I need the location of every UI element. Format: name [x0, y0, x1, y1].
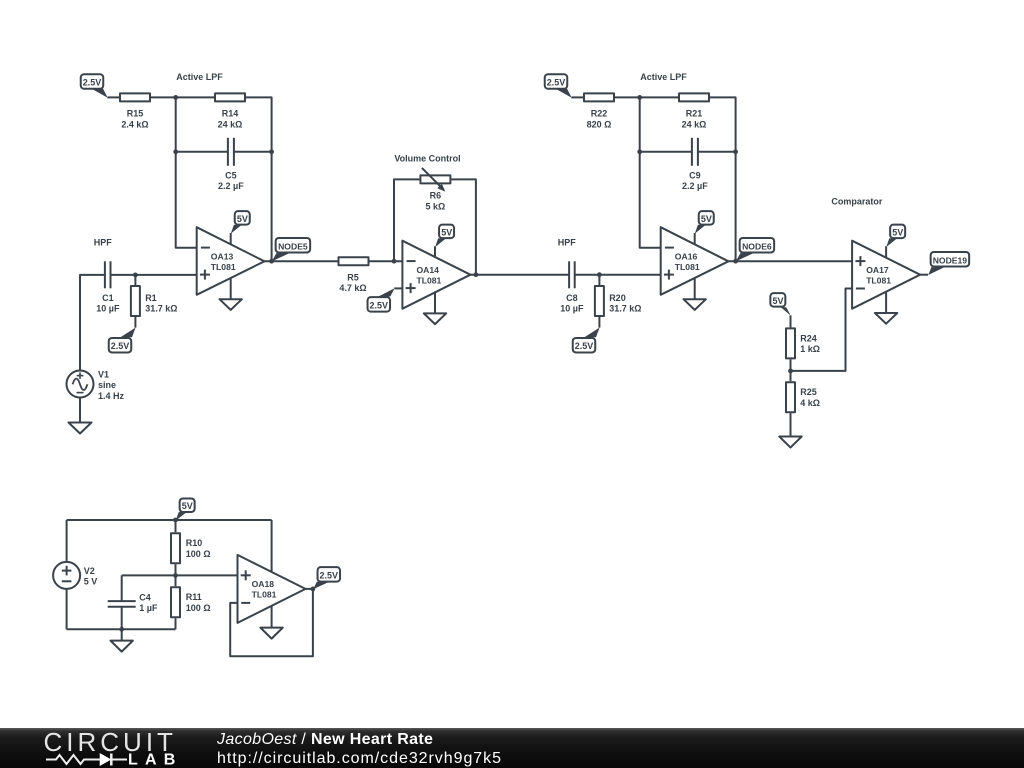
junction dot NODE5	[269, 259, 274, 264]
voltage source V2	[53, 562, 97, 589]
wire C5 left segment	[176, 151, 228, 153]
power flag 5V (OA16)	[695, 211, 714, 233]
svg-text:2.5V: 2.5V	[370, 300, 389, 310]
ground below R25	[779, 437, 801, 448]
ground below C4	[111, 641, 133, 652]
svg-text:Volume Control: Volume Control	[394, 153, 460, 163]
op-amp OA16	[661, 227, 729, 295]
junction dot C5 left	[173, 149, 178, 154]
logo diode	[100, 753, 112, 766]
power flag 2.5V (OA18 output)	[313, 567, 340, 589]
op-amp OA18	[238, 555, 306, 623]
ground below OA16	[684, 299, 706, 310]
wire OA18 to ground	[271, 606, 273, 628]
svg-text:820 Ω: 820 Ω	[587, 119, 612, 129]
wire C1 to OA13 plus input	[111, 274, 197, 276]
svg-text:HPF: HPF	[558, 238, 577, 248]
ground below OA14	[424, 313, 446, 324]
svg-text:OA13: OA13	[211, 251, 234, 261]
svg-text:R1: R1	[145, 293, 157, 303]
svg-text:TL081: TL081	[211, 262, 236, 272]
capacitor C4	[108, 593, 158, 630]
wire OA18 output	[306, 588, 313, 590]
svg-text:C1: C1	[102, 293, 114, 303]
svg-text:4 kΩ: 4 kΩ	[800, 398, 820, 408]
svg-text:2.2 µF: 2.2 µF	[682, 181, 708, 191]
resistor R1	[131, 275, 178, 328]
wire C5 right segment	[234, 151, 272, 153]
svg-text:TL081: TL081	[866, 275, 891, 285]
svg-text:sine: sine	[98, 380, 116, 390]
wire OA16 to ground	[694, 278, 696, 299]
wire OA14 to ground	[434, 292, 436, 314]
op-amp OA17	[852, 241, 920, 309]
wire R22 to R21	[615, 96, 678, 98]
resistor R10	[171, 520, 211, 575]
resistor R11	[171, 575, 211, 629]
wire OA17 to ground	[885, 292, 887, 313]
resistor R5	[339, 257, 369, 293]
power flag 5V (OA17)	[886, 225, 905, 247]
svg-text:5V: 5V	[441, 227, 452, 237]
junction dot R10/R11	[173, 573, 178, 578]
svg-text:R6: R6	[430, 191, 442, 201]
svg-text:TL081: TL081	[252, 590, 277, 600]
svg-text:V1: V1	[98, 369, 109, 379]
svg-text:1.4 Hz: 1.4 Hz	[98, 391, 125, 401]
svg-text:R24: R24	[800, 333, 817, 343]
junction dot R24/R25	[788, 369, 793, 374]
wire left feedback vertical to OA13 minus input	[176, 97, 197, 247]
capacitor C8	[560, 261, 584, 313]
svg-text:4.7 kΩ: 4.7 kΩ	[339, 283, 366, 293]
wire OA17 5V pin	[885, 246, 887, 257]
capacitor C1	[96, 261, 120, 313]
svg-text:HPF: HPF	[94, 238, 113, 248]
svg-text:V2: V2	[84, 566, 95, 576]
junction dot OA18 output	[311, 587, 316, 592]
wire V2 to bottom rail	[66, 589, 68, 629]
svg-text:5V: 5V	[772, 296, 783, 306]
svg-text:31.7 kΩ: 31.7 kΩ	[609, 304, 641, 314]
svg-text:2.4 kΩ: 2.4 kΩ	[121, 119, 148, 129]
net flag NODE6	[736, 238, 774, 261]
svg-text:R14: R14	[222, 109, 239, 119]
wire R24 to R25	[790, 359, 792, 381]
svg-text:R21: R21	[686, 109, 703, 119]
svg-text:NODE6: NODE6	[742, 242, 772, 252]
svg-text:5V: 5V	[701, 214, 712, 224]
voltage source V1 sine	[67, 369, 125, 401]
svg-text:NODE5: NODE5	[278, 242, 308, 252]
wire OA14 output to C8	[470, 274, 569, 276]
wire C8 to OA16 plus input	[575, 274, 661, 276]
svg-text:100 Ω: 100 Ω	[186, 549, 211, 559]
op-amp OA14	[402, 241, 470, 309]
wire R21 to right vertical rail	[710, 97, 736, 261]
svg-text:LAB: LAB	[128, 752, 182, 768]
svg-text:2.5V: 2.5V	[575, 341, 594, 351]
junction dot C9 left	[637, 149, 642, 154]
op-amp OA13	[197, 227, 265, 295]
svg-text:2.2 µF: 2.2 µF	[218, 181, 244, 191]
svg-text:10 µF: 10 µF	[560, 304, 584, 314]
wire left feedback vertical to OA16 minus input	[640, 97, 661, 247]
resistor R20	[595, 275, 642, 328]
wire OA14 5V pin	[434, 246, 436, 257]
wire OA16 5V pin	[694, 233, 696, 244]
wire OA14 plus input stub	[394, 287, 402, 289]
power flag 2.5V (below R20)	[573, 328, 600, 353]
power flag 2.5V (feeds R22)	[545, 74, 572, 97]
junction dot 5V rail	[173, 518, 178, 523]
svg-text:NODE19: NODE19	[933, 256, 968, 266]
ground below OA13	[220, 299, 242, 310]
svg-text:Active LPF: Active LPF	[176, 72, 223, 82]
junction dot C5 right	[269, 149, 274, 154]
svg-text:OA17: OA17	[866, 265, 889, 275]
wire middle rail C4 to OA18 plus	[122, 574, 238, 576]
wire C4 top stub	[121, 575, 123, 601]
svg-text:5 V: 5 V	[84, 577, 98, 587]
resistor R25	[786, 382, 820, 412]
svg-text:TL081: TL081	[675, 262, 700, 272]
wire R25 to ground	[790, 413, 792, 436]
svg-text:R20: R20	[609, 293, 626, 303]
junction dot C8/R20	[597, 272, 602, 277]
wire V1 to ground	[79, 398, 81, 423]
svg-text:Active LPF: Active LPF	[640, 72, 687, 82]
svg-text:24 kΩ: 24 kΩ	[218, 119, 243, 129]
svg-text:TL081: TL081	[417, 275, 442, 285]
svg-text:OA18: OA18	[252, 579, 275, 589]
power flag 5V (OA14)	[435, 225, 454, 247]
wire R14 to right vertical rail	[246, 97, 272, 261]
wire OA18 minus feedback loop	[230, 589, 313, 656]
junction dot NODE6	[733, 259, 738, 264]
resistor R24	[786, 328, 820, 358]
svg-text:5V: 5V	[237, 214, 248, 224]
wire 2.5V flag to R15	[107, 96, 119, 98]
power flag 2.5V (feeds R15)	[81, 74, 108, 97]
svg-text:OA16: OA16	[675, 251, 698, 261]
node junction dot (R15/R14/feedback)	[173, 95, 178, 100]
junction dot (R22/R21/feedback)	[637, 95, 642, 100]
ground below OA17	[875, 313, 897, 324]
wire OA13 5V pin	[230, 233, 232, 244]
svg-text:R25: R25	[800, 387, 817, 397]
power flag 5V (rail)	[176, 498, 195, 520]
wire OA17 output	[920, 274, 928, 276]
svg-text:24 kΩ: 24 kΩ	[682, 119, 707, 129]
resistor R15	[120, 93, 150, 129]
junction dot C9 right	[733, 149, 738, 154]
wire R5 to OA14 minus input	[370, 260, 403, 262]
svg-text:R22: R22	[591, 109, 608, 119]
resistor R21	[679, 93, 709, 129]
wire C4 ground stub	[121, 629, 123, 640]
wire junction to OA17 minus input	[791, 289, 853, 371]
wire OA13 to ground	[230, 278, 232, 299]
wire 2.5V flag to R22	[571, 96, 583, 98]
svg-text:Comparator: Comparator	[831, 196, 883, 206]
power flag 5V (OA13)	[231, 211, 250, 233]
power flag 2.5V (OA14 plus)	[368, 288, 395, 311]
ground below OA18	[260, 628, 282, 639]
capacitor C9	[682, 138, 708, 191]
resistor R22	[584, 93, 614, 129]
svg-text:31.7 kΩ: 31.7 kΩ	[145, 304, 177, 314]
logo resistor zigzag wire	[46, 755, 100, 764]
svg-text:C5: C5	[225, 170, 237, 180]
junction dot OA14 output/feedback	[474, 272, 479, 277]
svg-text:2.5V: 2.5V	[111, 341, 130, 351]
svg-text:5V: 5V	[892, 227, 903, 237]
svg-text:1 kΩ: 1 kΩ	[800, 344, 820, 354]
net flag NODE5	[272, 238, 310, 261]
svg-text:5V: 5V	[182, 501, 193, 511]
wire V1 to C1	[80, 275, 105, 371]
ground below V1	[69, 423, 92, 434]
power flag 2.5V (below R1)	[109, 328, 136, 353]
wire OA13 output to R5	[264, 260, 337, 262]
svg-text:100 Ω: 100 Ω	[186, 603, 211, 613]
svg-text:10 µF: 10 µF	[96, 304, 120, 314]
net flag NODE19	[928, 252, 969, 275]
power flag 5V (feeds R24)	[770, 293, 790, 315]
wire bottom rail	[67, 628, 176, 630]
wire 5V flag to R24	[790, 315, 792, 327]
junction dot R5/R6 feedback	[392, 259, 397, 264]
svg-text:OA14: OA14	[417, 265, 440, 275]
svg-text:C8: C8	[566, 293, 578, 303]
wire 5V rail down to OA18 power	[271, 520, 273, 572]
svg-text:2.5V: 2.5V	[83, 78, 102, 88]
wire C9 left segment	[640, 151, 692, 153]
wire OA16 output to OA17 plus input	[728, 260, 852, 262]
potentiometer R6	[420, 168, 450, 212]
junction dot C1/R1	[133, 273, 138, 278]
wire 5V top rail (V2 block)	[67, 519, 272, 521]
svg-text:R11: R11	[186, 592, 202, 602]
wire left rail to V2	[66, 520, 68, 562]
svg-text:5 kΩ: 5 kΩ	[426, 201, 446, 211]
wire R6 down to OA14 output	[451, 179, 476, 274]
svg-text:R15: R15	[127, 109, 144, 119]
svg-text:R5: R5	[347, 273, 359, 283]
svg-text:1 µF: 1 µF	[139, 603, 158, 613]
resistor R14	[215, 93, 245, 129]
wire C9 right segment	[698, 151, 736, 153]
wire feedback left up to R6	[394, 179, 419, 261]
svg-text:C4: C4	[139, 593, 151, 603]
wire R15 to R14	[151, 96, 214, 98]
svg-text:2.5V: 2.5V	[320, 570, 339, 580]
svg-text:R10: R10	[186, 538, 203, 548]
svg-text:C9: C9	[689, 170, 701, 180]
junction dot bottom rail/C4 ground	[119, 627, 124, 632]
capacitor C5	[218, 138, 244, 191]
svg-text:2.5V: 2.5V	[547, 78, 566, 88]
